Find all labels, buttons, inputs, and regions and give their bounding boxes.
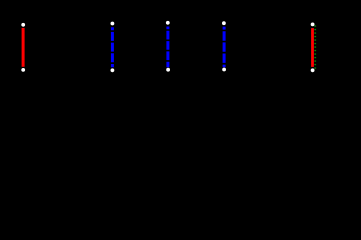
errorbar 3 top marker dot bbox=[166, 21, 170, 25]
errorbar 4 bottom marker dot bbox=[222, 68, 226, 72]
errorbar 2 bottom marker dot bbox=[111, 68, 115, 72]
errorbar 5 top marker dot bbox=[311, 23, 315, 27]
errorbar 3 blue dashed line bbox=[166, 27, 169, 68]
errorbar 5 green dotted line bbox=[314, 25, 316, 68]
errorbar 1 top marker dot bbox=[21, 23, 25, 27]
errorbar 2 blue dashed line bbox=[111, 27, 114, 67]
errorbar 5 bottom marker dot bbox=[311, 68, 315, 72]
errorbar 3 bottom marker dot bbox=[166, 68, 170, 72]
errorbar 1 red solid line bbox=[22, 28, 25, 67]
errorbar 4 top marker dot bbox=[222, 21, 226, 25]
errorbar 5 red solid line bbox=[311, 28, 314, 67]
errorbar 2 top marker dot bbox=[111, 22, 115, 26]
errorbar 1 bottom marker dot bbox=[21, 68, 25, 72]
errorbar 4 blue dashed line bbox=[223, 27, 226, 68]
